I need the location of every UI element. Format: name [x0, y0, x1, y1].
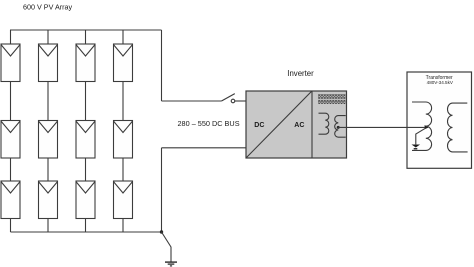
wire: string 2 bottom drop: [47, 219, 49, 233]
PV module PV32: [39, 181, 58, 219]
node: primary tap arrowhead: [425, 125, 430, 129]
PV module PV24: [114, 121, 133, 159]
wire: string 4 row1-row2 link: [122, 82, 124, 121]
PV module PV13: [76, 44, 95, 82]
wire: string 3 bottom drop: [85, 219, 87, 233]
ground: transformer neutral earth: [412, 145, 421, 150]
svg-text:600 V PV Array: 600 V PV Array: [23, 2, 73, 11]
wire: primary neutral lead: [416, 128, 426, 144]
PV module PV23: [76, 121, 95, 159]
wire: string 4 row2-row3 link: [122, 158, 124, 181]
transformer T1 secondary winding: [448, 103, 468, 152]
wire: DC negative feeder to inverter: [162, 147, 247, 149]
wire: top DC bus: [10, 29, 162, 31]
PV module PV12: [39, 44, 58, 82]
wire: string 2 top drop: [47, 30, 49, 44]
wire: bottom DC bus: [11, 231, 162, 233]
inverter U1 enclosure: [246, 91, 347, 158]
wire: string 4 bottom drop: [122, 219, 124, 233]
wire: DC positive feeder to switch: [162, 100, 222, 102]
wire: ground lead: [162, 232, 172, 262]
PV module PV11: [1, 44, 20, 82]
wire: switch to inverter DC+ input: [235, 100, 246, 102]
switch S1 (DC disconnect): [222, 94, 235, 103]
node: DC negative / ground junction: [160, 230, 163, 233]
transformer T1 enclosure: [407, 72, 472, 168]
PV module PV31: [1, 181, 20, 219]
wire: string 2 row2-row3 link: [47, 158, 49, 181]
svg-text:280 – 550 DC BUS: 280 – 550 DC BUS: [178, 119, 240, 128]
inverter U1 section divider: [311, 91, 313, 158]
wire: string 3 row2-row3 link: [85, 158, 87, 181]
inductor L1 (output filter left coil): [319, 113, 329, 134]
svg-text:AC: AC: [294, 122, 304, 129]
EMI filter grille: [318, 94, 346, 104]
ground: DC bus earth: [165, 262, 177, 266]
wire: AC output to transformer: [338, 126, 424, 128]
wire: string 4 top drop: [122, 30, 124, 44]
node: AC output tap: [337, 126, 340, 129]
wire: string 2 row1-row2 link: [47, 82, 49, 121]
PV module PV22: [39, 121, 58, 159]
wire: string 3 row1-row2 link: [85, 82, 87, 121]
svg-text:480V-34.5kV: 480V-34.5kV: [427, 80, 454, 85]
transformer T1 primary winding: [412, 102, 432, 150]
svg-text:Inverter: Inverter: [287, 69, 314, 78]
PV module PV21: [1, 121, 20, 159]
inductor L2 (output filter right coil): [335, 116, 346, 138]
wire: DC negative feeder vertical: [161, 148, 163, 232]
wire: DC positive feeder vertical: [161, 30, 163, 101]
PV module PV33: [76, 181, 95, 219]
PV module PV34: [114, 181, 133, 219]
wire: string 1 row1-row2 link: [10, 82, 12, 121]
PV module PV14: [114, 44, 133, 82]
wire: string 1 top drop: [10, 30, 12, 44]
wire: string 1 bottom drop: [10, 219, 12, 233]
svg-text:DC: DC: [254, 122, 264, 129]
inverter U1 DC/AC diagonal: [247, 91, 312, 157]
wire: string 1 row2-row3 link: [10, 158, 12, 181]
wire: string 3 top drop: [85, 30, 87, 44]
